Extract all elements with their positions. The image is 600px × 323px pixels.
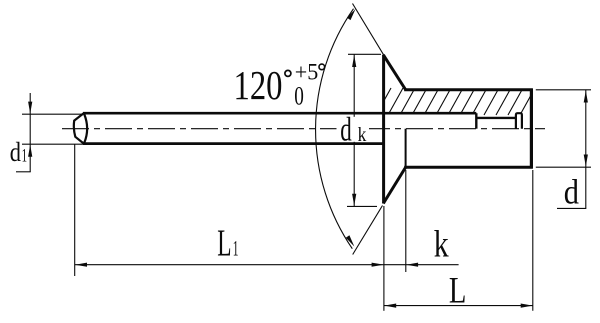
mandrel head [516, 113, 522, 129]
degree sign of +5 [319, 64, 325, 70]
L1 left arrowhead [75, 263, 87, 267]
d1 label underline [16, 171, 31, 173]
d dimension top extension tick [536, 89, 591, 91]
svg-text:1: 1 [233, 236, 239, 261]
L right arrowhead [521, 304, 533, 308]
dk text knockout [337, 117, 370, 142]
junction extension line (k) [405, 170, 407, 272]
dk top arrowhead [352, 55, 356, 67]
svg-text:k: k [434, 223, 449, 265]
d dimension bottom extension tick [536, 166, 591, 168]
mandrel neck line [476, 117, 516, 119]
d1 bottom extension tick [22, 143, 87, 145]
d label underline [557, 207, 586, 209]
centerline (axis) [62, 128, 545, 130]
mandrel bottom line [83, 142, 384, 145]
svg-text:d: d [564, 173, 580, 212]
svg-text:k: k [358, 125, 367, 146]
body right end [530, 89, 533, 169]
L dimension line [384, 305, 533, 307]
mandrel tip transition arc [84, 114, 87, 142]
dk top extension tick [348, 53, 381, 55]
body top line [404, 88, 533, 91]
countersunk cone lower face [383, 167, 406, 204]
svg-text:L: L [449, 270, 467, 311]
L1 left extension line [74, 144, 76, 276]
L1 and k dimension line [75, 264, 459, 266]
countersunk cone upper face [383, 55, 406, 90]
angle dimension arc [316, 9, 354, 249]
k left-pointing arrowhead [406, 263, 418, 267]
svg-text:0: 0 [294, 82, 304, 111]
L1 right arrowhead [372, 263, 384, 267]
body bottom line [404, 166, 533, 169]
d1 top arrowhead [28, 102, 32, 114]
d bottom arrowhead [584, 155, 588, 167]
L left arrowhead [384, 304, 396, 308]
hatching of sectioned head/body [376, 88, 547, 115]
svg-text:L: L [217, 223, 231, 265]
dk bottom extension tick [347, 205, 377, 207]
svg-text:d: d [340, 112, 352, 149]
d1 top extension tick [22, 113, 83, 115]
angle upper extension line [353, 4, 384, 55]
cone-body junction line (lower view half) [405, 129, 407, 168]
mandrel top line [83, 112, 476, 115]
arc upper arrowhead [347, 9, 356, 20]
degree sign of 120 [285, 70, 291, 76]
body end extension line (L) [532, 170, 534, 311]
arc lower arrowhead [346, 235, 355, 246]
dk bottom arrowhead [352, 194, 356, 206]
mandrel tip outline [74, 113, 84, 143]
d dimension line [585, 90, 587, 209]
d1 dimension line [29, 93, 31, 172]
dk dimension line [353, 54, 355, 206]
svg-text:1: 1 [22, 146, 27, 167]
mandrel break notch vertical [475, 113, 477, 129]
rivet head face [382, 55, 385, 204]
svg-text:d: d [10, 136, 21, 167]
d top arrowhead [584, 91, 588, 103]
d1 bottom arrowhead [28, 145, 32, 157]
svg-text:120: 120 [234, 62, 283, 108]
head face extension line (L1/k/L) [383, 206, 385, 311]
angle lower extension line [353, 206, 383, 255]
